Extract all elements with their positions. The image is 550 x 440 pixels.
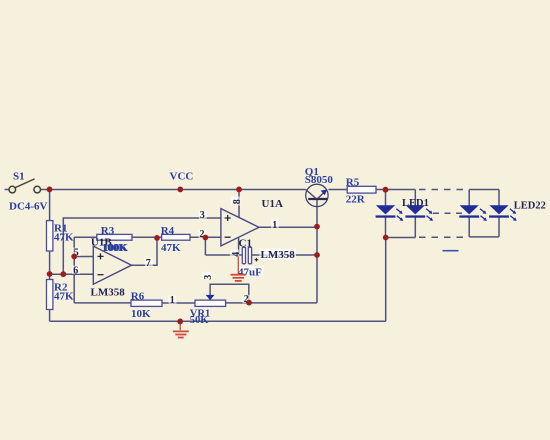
- transistor Q1: [306, 184, 328, 206]
- switch S1: [9, 179, 41, 193]
- resistor R2: [47, 280, 53, 310]
- svg-text:47K: 47K: [54, 291, 74, 303]
- svg-text:C1: C1: [239, 238, 252, 250]
- capacitor C1 plus mark: [255, 258, 259, 262]
- svg-text:S1: S1: [13, 171, 25, 183]
- wire: U1A pin2 junction down to C1 row: [204, 238, 206, 256]
- svg-text:47K: 47K: [161, 242, 181, 254]
- svg-text:LM358: LM358: [261, 249, 296, 261]
- wire: U1B output pin7 up to R3/R4 junction: [131, 237, 157, 265]
- pin label 1 (VR1 left): [169, 295, 177, 303]
- node: U1A pin8 junction: [236, 187, 242, 193]
- svg-text:4: 4: [231, 252, 242, 257]
- wire: vertical from pin6 junction up and across to U1A pin3: [63, 218, 221, 274]
- node: R3/R4/pin7 junction: [154, 235, 160, 241]
- LED22 (second pair, left diode): [459, 205, 487, 221]
- svg-text:3: 3: [200, 210, 205, 221]
- wire: R2 bottom down to bottom ground rail: [49, 310, 51, 322]
- wire: U1A pin8 from VCC rail: [238, 190, 240, 218]
- node: LED group top junction: [383, 187, 389, 193]
- node: U1B pin5 junction: [71, 254, 77, 260]
- svg-text:DC4-6V: DC4-6V: [9, 201, 48, 213]
- svg-text:47uF: 47uF: [238, 266, 262, 278]
- node: U1A pin2 junction: [203, 235, 209, 241]
- pin label 2 (VR1 right): [243, 295, 251, 303]
- svg-text:6: 6: [73, 265, 78, 276]
- ground symbol on bottom rail: [173, 321, 189, 337]
- node: S1 / VCC rail junction: [47, 187, 53, 193]
- wire: R6 row from column to R6 left: [74, 302, 131, 304]
- wire: dashed continuation bottom: [419, 236, 466, 238]
- wire: R3 right to R4 left through junction: [132, 236, 162, 238]
- LED22 (second pair, right diode): [489, 205, 517, 221]
- wire: VR1 wiper loop: [210, 284, 249, 303]
- capacitor C1: [242, 247, 245, 263]
- svg-text:VCC: VCC: [170, 171, 194, 183]
- wire: U1A pin4 stub: [238, 238, 240, 255]
- wire: LED1a cathode lead: [385, 218, 387, 238]
- wire: C1 row left segment: [205, 254, 242, 256]
- wire: Q1 emitter to R5: [328, 189, 347, 191]
- svg-text:LM358: LM358: [91, 286, 126, 298]
- resistor R1: [47, 221, 53, 251]
- wire: R5 right to LED node A: [376, 189, 386, 191]
- svg-text:LED1: LED1: [402, 198, 429, 209]
- pin label 8 (U1A V+) rotated: [231, 197, 241, 206]
- svg-text:3: 3: [203, 275, 214, 280]
- svg-text:47K: 47K: [54, 232, 74, 244]
- wire: VCC rail from S1 to Q1 collector: [41, 189, 306, 191]
- pin label 1 (U1A out): [271, 220, 279, 228]
- wire: dashed continuation top: [419, 189, 466, 191]
- svg-text:R4: R4: [161, 225, 175, 237]
- svg-text:7: 7: [146, 258, 151, 269]
- wire: vertical R3.left / pin5 / R6 column: [73, 237, 75, 303]
- wire: continuation tick below LED group2: [443, 250, 459, 252]
- wire: LED group1 top rail: [386, 189, 416, 191]
- svg-text:LED22: LED22: [514, 201, 546, 212]
- wire: U1B pin5 input: [74, 256, 93, 258]
- node: C1 / base column junction: [314, 252, 320, 258]
- wire: pin6 row from R1/R2 junction to U1B inverting input: [50, 273, 94, 275]
- op-amp U1A: [221, 209, 259, 246]
- wire: LED group1 bottom rail: [386, 237, 416, 239]
- svg-text:100K: 100K: [103, 242, 129, 254]
- wire: dashed continuation middle: [433, 212, 466, 214]
- wire: LED1b cathode lead: [414, 218, 416, 238]
- potentiometer VR1: [195, 300, 226, 306]
- wire: LED return drop to ground rail: [385, 238, 387, 322]
- node: VCC label junction: [177, 187, 183, 193]
- pin label 3 (U1A +): [199, 211, 207, 219]
- wire: R1 bottom to R2 top through junction: [49, 251, 51, 280]
- wire: R4 right to U1A pin2: [190, 236, 221, 238]
- wire: stub left of switch S1: [5, 189, 10, 191]
- svg-text:R5: R5: [346, 176, 360, 188]
- wire: bottom ground rail: [50, 320, 386, 322]
- pin label 4 (U1A V-) rotated: [230, 250, 240, 257]
- wire: U1A output pin1 to Q1-base column: [259, 226, 317, 228]
- resistor R6: [131, 300, 162, 306]
- svg-text:R6: R6: [131, 291, 145, 303]
- op-amp U1B: [93, 246, 131, 284]
- resistor R4: [162, 234, 190, 240]
- wire: LED group2 box left: [468, 190, 470, 237]
- svg-text:S8050: S8050: [305, 174, 334, 186]
- svg-text:8: 8: [232, 199, 243, 204]
- LED1 (first pair, right diode): [405, 205, 433, 221]
- wire: LED1b anode lead: [414, 190, 416, 206]
- resistor R3: [97, 234, 132, 240]
- node: pin6 column junction: [60, 271, 66, 277]
- wire: C1 row right segment to Q1-base column: [252, 254, 317, 256]
- potentiometer VR1 wiper arrow: [206, 295, 215, 300]
- wire: LED group2 box top: [469, 189, 499, 191]
- wire: LED group2 box right: [498, 190, 500, 237]
- wire: LED group2 box bottom: [469, 236, 499, 238]
- svg-text:U1A: U1A: [262, 198, 283, 210]
- node: R1/R2 divider junction: [47, 271, 53, 277]
- wire: LED1a anode lead: [385, 190, 387, 206]
- svg-text:1: 1: [272, 220, 277, 231]
- wire: Q1 base column down to VR1 row: [316, 199, 318, 303]
- node: LED group bottom junction: [383, 235, 389, 241]
- wire: VR1 right to Q1-base column: [226, 302, 317, 304]
- pin label 6 (U1B -): [72, 266, 80, 274]
- svg-text:1: 1: [170, 295, 175, 306]
- wire: left column from S1 junction down to R1 top: [49, 190, 51, 221]
- resistor R5: [347, 186, 376, 193]
- svg-text:R3: R3: [101, 225, 115, 237]
- LED1 (first pair, left diode): [376, 205, 404, 221]
- svg-text:10K: 10K: [131, 308, 151, 320]
- wire: R6 right to VR1 left: [162, 302, 195, 304]
- node: VR1 pin2 junction: [246, 300, 252, 306]
- wire: R3 row left segment: [74, 236, 97, 238]
- ground symbol at U1A pin4 / C1: [231, 255, 247, 281]
- pin label 3 (VR1 wiper) rotated: [202, 272, 212, 280]
- node: pin1 / Q1 base junction: [314, 224, 320, 230]
- pin label 5 (U1B +): [73, 248, 81, 256]
- node: ground rail junction: [177, 319, 183, 325]
- svg-text:22R: 22R: [346, 193, 366, 205]
- svg-text:50K: 50K: [190, 315, 210, 326]
- pin label 7 (U1B out): [145, 258, 153, 266]
- pin label 2 (U1A -): [199, 230, 207, 238]
